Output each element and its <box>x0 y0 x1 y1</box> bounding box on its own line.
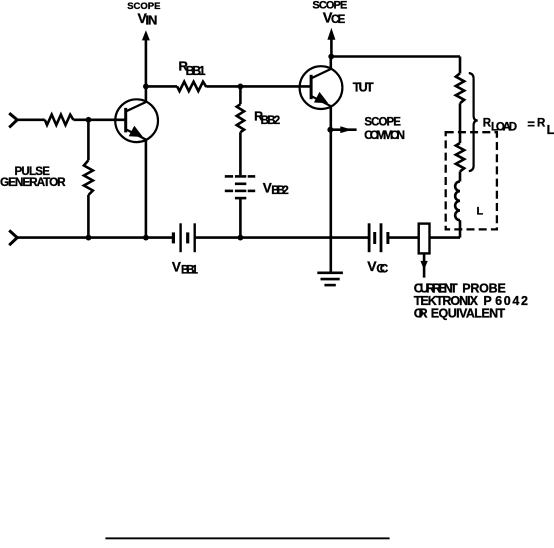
svg-text:CC: CC <box>376 264 388 276</box>
svg-text:OR: OR <box>414 307 428 321</box>
svg-text:GENERATOR: GENERATOR <box>0 175 66 189</box>
svg-text:V: V <box>172 259 181 274</box>
svg-text:BB1: BB1 <box>186 64 206 78</box>
svg-text:CE: CE <box>331 14 346 26</box>
svg-text:R: R <box>537 117 546 129</box>
svg-text:L: L <box>547 122 554 137</box>
svg-text:BB1: BB1 <box>181 264 199 276</box>
svg-text:TUT: TUT <box>353 81 374 95</box>
svg-text:EQUIVALENT: EQUIVALENT <box>431 307 506 321</box>
svg-text:=: = <box>527 117 535 132</box>
svg-text:LOAD: LOAD <box>491 122 517 134</box>
svg-text:BB2: BB2 <box>261 115 281 127</box>
svg-text:IN: IN <box>145 13 157 28</box>
svg-text:SCOPE: SCOPE <box>364 117 401 129</box>
svg-text:BB2: BB2 <box>271 185 289 197</box>
svg-text:L: L <box>477 206 484 218</box>
svg-text:COMMON: COMMON <box>364 128 405 142</box>
